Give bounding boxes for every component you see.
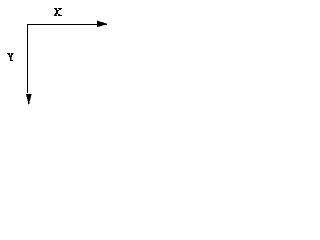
- x-axis wire: [27, 24, 98, 25]
- y-axis wire: [27, 24, 28, 93]
- label X: [54, 8, 62, 16]
- y-axis arrowhead: [26, 94, 32, 105]
- label Y: [7, 53, 14, 61]
- x-axis arrowhead: [97, 21, 108, 28]
